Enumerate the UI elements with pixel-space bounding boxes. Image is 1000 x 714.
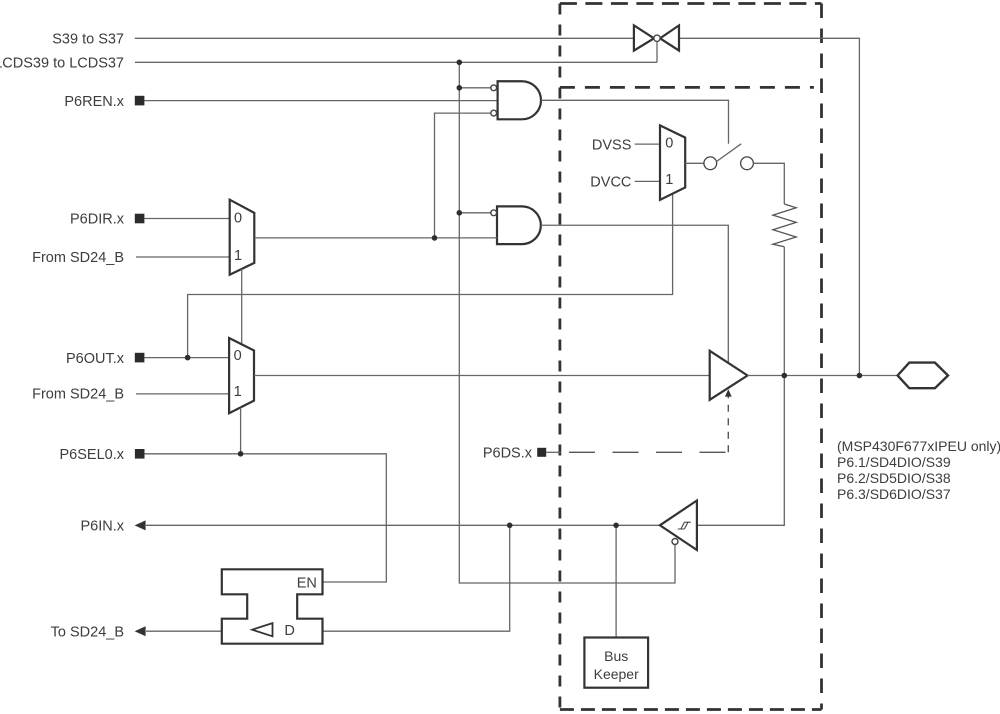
wire P6DIR to mux M1 input 0 (144, 218, 229, 220)
svg-text:S39 to S37: S39 to S37 (52, 32, 124, 48)
junction dot LCDS / enable net (457, 60, 463, 66)
svg-text:P6SEL0.x: P6SEL0.x (60, 447, 125, 463)
switch lever (717, 144, 742, 162)
svg-text:To SD24_B: To SD24_B (51, 624, 124, 640)
wire DVSS to mux M3 input 0 (635, 143, 660, 145)
arrow P6DS into driver (725, 389, 732, 396)
svg-text:P6.1/SD4DIO/S39: P6.1/SD4DIO/S39 (837, 454, 951, 470)
bubble U1 top input (491, 85, 497, 91)
mux M2 (P6OUT select) (229, 338, 254, 413)
wire gate U1 output to switch control (541, 100, 729, 143)
wire P6IN from schmitt output (146, 524, 660, 526)
svg-text:P6OUT.x: P6OUT.x (66, 351, 125, 367)
svg-text:LCDS39 to LCDS37: LCDS39 to LCDS37 (0, 56, 124, 72)
wire S39 left segment (135, 37, 634, 39)
transmission gate bubble (654, 35, 660, 41)
and-gate U1 body (498, 81, 541, 119)
svg-text:P6REN.x: P6REN.x (64, 94, 124, 110)
bus keeper box (584, 638, 648, 688)
schmitt enable bubble (672, 539, 678, 545)
junction dot P6SEL0 branch (238, 451, 244, 457)
bubble U2 top input (491, 210, 497, 216)
wire gate U1 top input (459, 87, 491, 89)
wire driver output to pad (748, 375, 898, 377)
wire P6DS dashed horizontal (569, 451, 728, 453)
transmission gate left triangle (634, 25, 654, 50)
wire resistor R1 to pad node and schmitt input (697, 247, 784, 526)
svg-text:From SD24_B: From SD24_B (32, 387, 124, 403)
wire gate U2 output to driver enable (541, 225, 728, 362)
wire vertical net LCDS down to schmitt enable (459, 62, 675, 583)
junction dot U1 top input (457, 85, 463, 91)
wire LCDS39 (135, 61, 657, 63)
wire bus keeper connection (615, 525, 617, 637)
junction dot M1 output branch (432, 235, 438, 241)
transmission gate right triangle (660, 25, 679, 50)
wire gate U1 bottom input from mux M1 output (435, 113, 491, 238)
mux M3 (pullup/pulldown select) (660, 125, 685, 199)
svg-text:0: 0 (665, 136, 673, 152)
svg-text:0: 0 (234, 348, 242, 364)
svg-text:DVCC: DVCC (590, 175, 631, 191)
wire P6OUT branch to mux M3 select (188, 194, 673, 358)
svg-text:Keeper: Keeper (594, 666, 639, 682)
svg-text:P6.2/SD5DIO/S38: P6.2/SD5DIO/S38 (837, 470, 951, 486)
arrow To SD24_B left (135, 626, 146, 636)
schmitt hysteresis symbol (678, 522, 691, 529)
junction dot pad / S39 net (857, 373, 863, 379)
svg-text:0: 0 (234, 211, 242, 227)
wire D latch input from P6IN node (323, 525, 510, 631)
wire select M1-M2 (241, 269, 243, 344)
wire mux M3 output to switch (685, 162, 704, 164)
terminal square P6DIR (135, 214, 145, 224)
svg-text:P6DS.x: P6DS.x (483, 445, 533, 461)
wire P6OUT to mux M2 input 0 (144, 357, 229, 359)
wire From SD24_B to mux M1 input 1 (136, 256, 230, 258)
wire switch to resistor R1 (754, 163, 785, 204)
terminal square P6DS (537, 448, 546, 457)
junction dot pad / resistor net (782, 373, 788, 379)
switch contact circle left (704, 157, 717, 170)
svg-text:Bus: Bus (604, 648, 628, 664)
wire mux M2 output to driver (254, 375, 710, 377)
bubble U1 bottom input (491, 110, 497, 116)
pad hexagon (898, 363, 948, 389)
resistor R1 (773, 204, 796, 247)
wire mux M1 output to gate U2 (254, 237, 497, 239)
wire P6SEL0 to EN latch (145, 454, 387, 582)
junction dot P6IN / bus keeper (613, 523, 619, 529)
wire P6REN to gate U1 (144, 100, 497, 102)
wire S39 right segment to pad (679, 38, 859, 375)
svg-text:EN: EN (297, 575, 317, 591)
terminal square P6REN (135, 96, 145, 106)
junction dot P6IN / D latch (507, 523, 513, 529)
wire select M2 to P6SEL0 (240, 408, 242, 454)
wire P6DS dashed vertical (727, 396, 729, 453)
junction dot U2 top input (457, 210, 463, 216)
dashed box outer (LCD segment function) (560, 4, 822, 710)
driver buffer U3 (710, 351, 748, 400)
svg-text:P6DIR.x: P6DIR.x (70, 212, 125, 228)
wire latch output to SD24_B (146, 630, 222, 632)
switch contact circle right (741, 157, 754, 170)
wire From SD24_B to mux M2 input 1 (136, 393, 229, 395)
svg-text:D: D (284, 623, 294, 639)
wire transmission gate control from LCDS (656, 42, 658, 63)
dashed inner top edge (MSP430F677xIPEU region) (560, 86, 814, 89)
svg-text:P6IN.x: P6IN.x (80, 519, 124, 535)
svg-text:1: 1 (234, 248, 242, 264)
mux M1 (P6DIR select) (230, 200, 255, 275)
svg-text:P6.3/SD6DIO/S37: P6.3/SD6DIO/S37 (837, 486, 951, 502)
svg-text:From SD24_B: From SD24_B (32, 250, 124, 266)
svg-text:DVSS: DVSS (592, 137, 632, 153)
svg-text:1: 1 (234, 384, 242, 400)
svg-text:1: 1 (665, 172, 673, 188)
schmitt trigger U4 (660, 501, 697, 551)
arrow P6IN left (135, 520, 146, 530)
junction dot P6OUT branch (185, 355, 191, 361)
wire DVCC to mux M3 input 1 (635, 180, 660, 182)
wire gate U2 top input (459, 212, 491, 214)
svg-text:(MSP430F677xIPEU only): (MSP430F677xIPEU only) (837, 438, 1000, 454)
latch (EN / D) body (222, 569, 323, 643)
latch clock triangle (252, 623, 272, 636)
terminal square P6SEL0 (135, 449, 145, 459)
terminal square P6OUT (135, 353, 145, 363)
and-gate U2 body (497, 206, 541, 244)
wire P6DS solid stub (546, 451, 561, 453)
